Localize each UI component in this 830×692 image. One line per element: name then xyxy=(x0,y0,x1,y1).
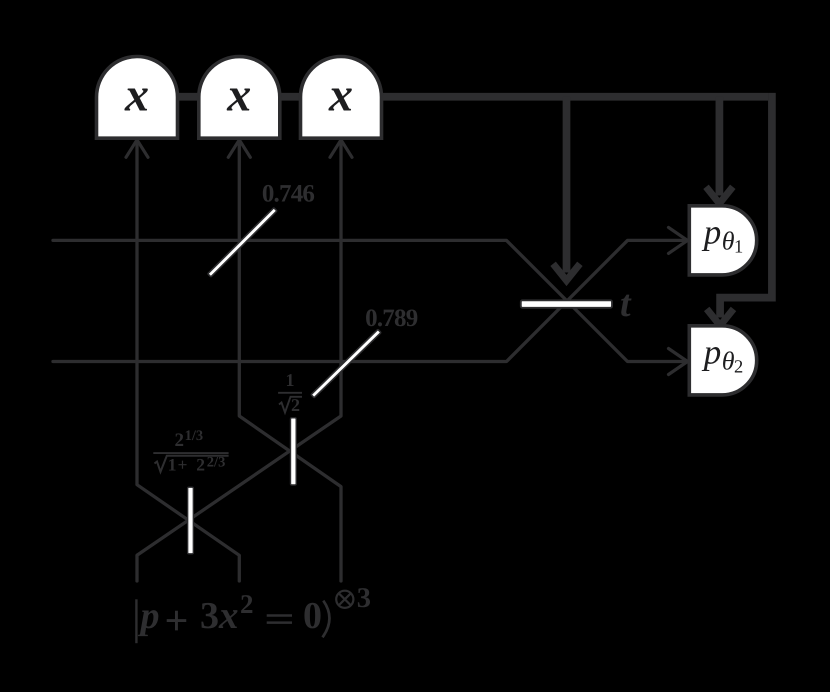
svg-text:1: 1 xyxy=(168,455,177,475)
svg-text:x: x xyxy=(328,69,353,122)
svg-text:2: 2 xyxy=(175,430,185,451)
svg-text:0.789: 0.789 xyxy=(365,305,418,332)
svg-text:3: 3 xyxy=(200,595,219,637)
svg-text:x: x xyxy=(218,594,239,637)
svg-text:+: + xyxy=(165,598,189,644)
svg-text:0.746: 0.746 xyxy=(262,180,315,207)
svg-text:θ: θ xyxy=(722,226,735,255)
svg-text:2: 2 xyxy=(734,357,743,377)
svg-text:θ: θ xyxy=(722,346,735,375)
svg-text:p: p xyxy=(138,595,160,637)
svg-text:1: 1 xyxy=(734,237,743,257)
svg-text:p: p xyxy=(701,333,722,372)
svg-text:t: t xyxy=(620,283,632,325)
svg-text:p: p xyxy=(701,213,722,252)
svg-text:0: 0 xyxy=(303,595,322,637)
svg-text:2/3: 2/3 xyxy=(207,454,226,470)
svg-text:1/3: 1/3 xyxy=(185,428,204,444)
svg-text:2: 2 xyxy=(291,395,300,415)
svg-text:2: 2 xyxy=(196,455,205,475)
svg-text:+: + xyxy=(178,455,188,475)
svg-text:x: x xyxy=(226,69,251,122)
svg-text:1: 1 xyxy=(286,370,295,390)
svg-text:2: 2 xyxy=(240,589,254,619)
svg-text:3: 3 xyxy=(357,583,371,614)
svg-text:x: x xyxy=(124,69,149,122)
svg-text:=: = xyxy=(264,599,295,639)
